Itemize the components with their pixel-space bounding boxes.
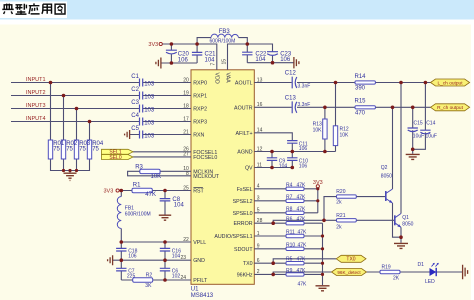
svg-text:2K: 2K — [393, 276, 400, 282]
svg-text:INPUT1: INPUT1 — [26, 77, 46, 83]
wire R5 row pin6 — [254, 262, 322, 264]
svg-text:PFILT: PFILT — [193, 278, 208, 284]
resistor R14 — [355, 81, 375, 84]
ground left of C20 rail — [156, 58, 161, 69]
capacitor C9 — [267, 158, 277, 161]
resistor R11 — [286, 234, 304, 237]
wire rail A 3V3 pullups — [317, 188, 319, 213]
svg-text:16: 16 — [257, 102, 263, 108]
wire 3V3 top rail left segment — [162, 44, 217, 70]
svg-text:24: 24 — [180, 275, 186, 281]
wire ground rail under R01-R04 — [51, 159, 90, 173]
capacitor C5 — [140, 131, 143, 139]
svg-text:RXP2: RXP2 — [193, 107, 207, 113]
svg-text:600R/100M: 600R/100M — [210, 39, 236, 45]
wire R8 row pin5 — [254, 212, 317, 214]
resistor R20 — [337, 195, 357, 198]
text 96K_detect tag — [337, 270, 361, 275]
svg-text:MS8413: MS8413 — [191, 293, 214, 299]
capacitor C20 polarized — [166, 50, 177, 54]
wire R10 row pin9 — [254, 248, 322, 250]
svg-text:2k: 2k — [336, 200, 342, 206]
title band — [0, 0, 474, 20]
svg-text:47K: 47K — [298, 230, 308, 236]
wire INPUT2 row — [11, 95, 191, 97]
wire rail B pulldowns to ground — [322, 223, 324, 285]
capacitor C10 — [287, 158, 297, 161]
wire C10 stubs — [291, 152, 293, 168]
capacitor C13 polarized — [292, 101, 297, 113]
labels C7 C6 R2 — [127, 268, 180, 289]
svg-text:75: 75 — [79, 147, 86, 153]
wire FB1 stubs — [120, 191, 122, 243]
svg-text:VPLL: VPLL — [193, 240, 206, 246]
svg-text:C21: C21 — [205, 51, 217, 57]
svg-text:20: 20 — [183, 77, 189, 83]
svg-text:VAA: VAA — [225, 73, 231, 84]
svg-text:R9: R9 — [286, 268, 293, 274]
pin numbers left — [180, 77, 189, 281]
pin names right column — [214, 81, 253, 279]
wire drop INPUT1 to R01 — [50, 83, 52, 141]
svg-text:MCLKOUT: MCLKOUT — [193, 174, 220, 180]
labels C12 C13 — [285, 71, 297, 102]
svg-text:27: 27 — [183, 152, 189, 158]
capacitor C15 polarized — [408, 128, 418, 132]
text 3V3 ladder — [313, 180, 323, 186]
wire C21 stubs — [196, 44, 198, 63]
net tag SEL1 — [102, 149, 134, 154]
svg-text:AOUTL: AOUTL — [235, 81, 253, 87]
svg-text:8050: 8050 — [381, 174, 392, 180]
resistor R3 — [140, 169, 160, 173]
svg-text:75: 75 — [92, 147, 99, 153]
svg-text:C12: C12 — [285, 71, 297, 77]
wire MCLKIN loop R3 — [128, 171, 191, 176]
title glyph 型 — [15, 4, 26, 14]
svg-text:106: 106 — [280, 57, 291, 63]
IC U1 MS8413 body — [191, 70, 254, 284]
labels C15 C14 — [414, 120, 436, 126]
capacitor C21 — [192, 52, 202, 55]
wire FB3 bridge — [197, 38, 247, 44]
net tag TX0 — [336, 255, 366, 262]
resistor R6 — [286, 222, 304, 225]
svg-text:102: 102 — [172, 273, 181, 279]
capacitor C3 — [140, 105, 143, 113]
pin numbers top 7 15 — [210, 59, 227, 66]
svg-text:FOCSEL0: FOCSEL0 — [193, 155, 217, 161]
capacitor C4 — [140, 118, 143, 126]
svg-text:104: 104 — [279, 163, 288, 169]
svg-text:R14: R14 — [355, 74, 367, 80]
title glyph 图 — [55, 4, 65, 14]
svg-text:ERROR: ERROR — [233, 221, 252, 227]
wire R11 row pin1 — [254, 235, 322, 237]
wire TX0 branch — [273, 259, 336, 263]
svg-text:3V3: 3V3 — [313, 180, 323, 186]
svg-text:15: 15 — [221, 59, 227, 65]
svg-text:103: 103 — [144, 107, 155, 113]
svg-text:C5: C5 — [131, 126, 139, 132]
svg-text:U1: U1 — [191, 286, 199, 292]
svg-text:SEL0: SEL0 — [109, 155, 121, 161]
svg-text:VDD: VDD — [213, 73, 219, 84]
svg-text:104: 104 — [174, 202, 185, 208]
capacitor C6 — [160, 268, 170, 271]
svg-text:GND: GND — [193, 258, 205, 264]
wire R20 to Q2 base — [356, 196, 386, 198]
wire C7 column — [120, 260, 122, 280]
svg-text:47K: 47K — [297, 257, 307, 263]
wire left cap ground rail — [161, 62, 197, 64]
wire right cap ground rail — [247, 62, 294, 64]
values 10uF 10uF — [413, 134, 437, 140]
svg-text:TX0: TX0 — [243, 261, 253, 267]
wire R9 row pin2 — [254, 273, 322, 275]
wire AGND row pin12 — [254, 151, 335, 153]
resistor R8 — [286, 211, 304, 214]
text L_ch R_ch output — [437, 80, 464, 111]
resistor R9 — [286, 273, 304, 276]
wire R4 row pin4 — [254, 188, 317, 190]
wire Q2 collector to R_ch — [392, 107, 394, 189]
wire SEL1 to pin26 — [133, 151, 191, 153]
svg-text:2: 2 — [257, 269, 260, 275]
wire INPUT3 row — [11, 108, 191, 110]
svg-text:R7: R7 — [286, 194, 293, 200]
capacitor C16 — [160, 248, 170, 251]
svg-text:104: 104 — [255, 57, 266, 63]
resistor R19 — [380, 270, 400, 273]
ground right of D1 — [463, 265, 468, 279]
wire AOUTR row R_ch — [254, 106, 430, 108]
svg-text:Q1: Q1 — [402, 215, 409, 221]
svg-text:R4: R4 — [286, 182, 293, 188]
svg-text:R19: R19 — [382, 264, 391, 270]
svg-text:L_ch output: L_ch output — [437, 80, 463, 86]
svg-text:47K: 47K — [297, 182, 307, 188]
ground below Q1 emitter — [394, 243, 408, 248]
svg-text:AFILT+: AFILT+ — [235, 131, 252, 137]
svg-text:3V3: 3V3 — [104, 188, 114, 194]
svg-text:103: 103 — [144, 133, 155, 139]
resistor R15 — [355, 106, 375, 109]
svg-text:R2: R2 — [146, 272, 153, 278]
svg-text:R5: R5 — [286, 257, 293, 263]
svg-text:22: 22 — [183, 237, 189, 243]
wire 96K tag to R19 to D1 to ground — [367, 271, 463, 273]
svg-text:75: 75 — [66, 147, 73, 153]
wire C18 column — [120, 242, 122, 260]
pin numbers right — [257, 77, 263, 275]
resistor R21 — [337, 219, 357, 222]
svg-text:106: 106 — [299, 146, 308, 152]
svg-text:104: 104 — [172, 253, 181, 259]
resistor R2 — [133, 278, 153, 282]
wire C20 stubs — [170, 44, 172, 63]
svg-text:47K: 47K — [297, 206, 307, 212]
labels C11 C9 C10 — [279, 141, 308, 169]
svg-text:47K: 47K — [297, 194, 307, 200]
labels C22 C23 — [255, 51, 291, 63]
svg-text:225: 225 — [127, 273, 136, 279]
labels R19 D1 LED — [382, 262, 436, 285]
svg-text:3: 3 — [257, 196, 260, 202]
capacitor C18 — [116, 248, 126, 251]
net tag SEL0 — [102, 155, 134, 160]
capacitor C11 — [287, 141, 297, 144]
resistor R04 — [87, 140, 91, 159]
svg-text:10K: 10K — [340, 133, 350, 139]
capacitor C23 polarized — [267, 52, 278, 56]
pin names top VDD VAA — [213, 73, 230, 84]
wire drop INPUT3 to R03 — [76, 109, 78, 141]
text 3V3 at R1 — [104, 188, 114, 194]
text TX0 tag — [346, 257, 355, 263]
svg-text:Q2: Q2 — [381, 165, 388, 171]
svg-text:8050: 8050 — [402, 222, 413, 228]
resistor R01 — [48, 140, 52, 159]
svg-text:QV: QV — [245, 166, 253, 172]
labels C18 C16 — [128, 248, 181, 259]
svg-text:SPSEL0: SPSEL0 — [233, 211, 253, 217]
svg-text:21: 21 — [183, 129, 189, 135]
diode D1 LED — [430, 263, 439, 276]
wire C6 column — [164, 260, 166, 280]
svg-text:RST: RST — [193, 189, 204, 195]
ground below C8 — [159, 215, 171, 220]
wire QV row pin11 — [254, 167, 292, 169]
svg-text:C1: C1 — [131, 74, 139, 80]
svg-text:47K: 47K — [297, 268, 307, 274]
svg-text:INPUT4: INPUT4 — [26, 116, 46, 122]
svg-text:AUDIO/SPSEL1: AUDIO/SPSEL1 — [214, 234, 252, 240]
inductor FB3 — [211, 34, 239, 37]
svg-text:17: 17 — [183, 116, 189, 122]
svg-text:103: 103 — [144, 94, 155, 100]
wire SEL0 to pin27 — [133, 156, 191, 158]
wire INPUT1 row — [11, 82, 191, 84]
wire C23 lower stub — [272, 56, 274, 63]
labels R20 R21 — [336, 189, 345, 231]
svg-text:RXN: RXN — [193, 133, 204, 139]
svg-text:FB3: FB3 — [219, 29, 231, 35]
resistor R7 — [286, 199, 304, 202]
title text 典型应用图 — [2, 3, 65, 14]
svg-text:C14: C14 — [426, 120, 435, 126]
capacitor C14 polarized — [420, 130, 430, 134]
svg-text:10uF: 10uF — [426, 134, 437, 140]
text SEL1 SEL0 — [109, 150, 121, 161]
ground left of C5 — [125, 130, 130, 139]
text U1 MS8413 — [191, 286, 214, 298]
wire C15 column — [412, 107, 414, 154]
svg-text:SDOUT: SDOUT — [234, 247, 253, 253]
text 3V3 top — [148, 42, 158, 48]
label FB1 600R/100M — [125, 206, 151, 218]
title glyph 用 — [42, 4, 52, 14]
wire C22 stubs — [246, 44, 248, 63]
svg-text:14: 14 — [257, 128, 263, 134]
power port 3V3 at R1 — [116, 189, 119, 192]
labels R13 R12 — [313, 122, 349, 139]
svg-text:R11: R11 — [286, 230, 295, 236]
svg-text:600R/100M: 600R/100M — [125, 212, 151, 218]
power port 3V3 ladder — [316, 185, 319, 188]
labels R14 R15 — [355, 74, 367, 117]
svg-text:D1: D1 — [418, 262, 425, 268]
title glyph 应 — [29, 3, 40, 14]
wire PFILT row pin24 with R2 — [121, 279, 191, 281]
wire 3V3 to R1 to RST pin25 — [119, 190, 191, 192]
capacitor C8 — [160, 199, 171, 201]
svg-text:47K: 47K — [297, 217, 307, 223]
resistor R5 — [286, 262, 304, 265]
label FB3 — [219, 29, 231, 35]
RST overline — [193, 187, 203, 189]
wire R13 stubs — [324, 107, 326, 151]
label C8 104 — [172, 197, 184, 209]
svg-text:FsSEL: FsSEL — [237, 187, 253, 193]
svg-text:R21: R21 — [336, 213, 345, 219]
svg-text:47K: 47K — [298, 281, 308, 287]
svg-text:103: 103 — [144, 120, 155, 126]
svg-text:R1: R1 — [133, 182, 141, 188]
wire C14 column — [413, 83, 426, 150]
svg-text:470: 470 — [355, 110, 366, 116]
svg-text:RXP0: RXP0 — [193, 81, 207, 87]
wire Q1 collector to L_ch — [400, 83, 402, 214]
svg-text:1: 1 — [257, 231, 260, 237]
wire R7 row pin3 — [254, 200, 317, 202]
svg-text:106: 106 — [178, 58, 189, 64]
transistor Q1 — [395, 214, 401, 228]
svg-text:R_ch output: R_ch output — [437, 105, 464, 111]
wire C16 column — [164, 242, 166, 260]
ground earth below R01-R04 — [64, 173, 77, 180]
svg-text:10K: 10K — [151, 174, 162, 180]
svg-text:C13: C13 — [285, 95, 297, 101]
wire R6 row pin28 — [254, 222, 322, 224]
svg-text:106: 106 — [128, 253, 137, 259]
svg-text:R6: R6 — [286, 217, 293, 223]
title glyph 典 — [2, 4, 13, 14]
svg-text:C4: C4 — [131, 113, 139, 119]
wire GND row pin23 — [113, 259, 191, 261]
resistor R02 — [61, 140, 65, 159]
svg-text:RXP1: RXP1 — [193, 94, 207, 100]
resistor R03 — [74, 140, 78, 159]
svg-text:3.3nF: 3.3nF — [298, 102, 311, 108]
pin names left column — [193, 81, 220, 285]
wire C9 stubs — [271, 152, 273, 168]
labels Q2 Q1 — [381, 165, 414, 228]
wire C8 drop — [164, 191, 166, 215]
svg-text:R10: R10 — [286, 242, 295, 248]
svg-text:75: 75 — [53, 147, 60, 153]
net labels INPUT1-4 — [26, 77, 46, 122]
transistor Q2 — [386, 189, 393, 203]
svg-text:AGND: AGND — [237, 150, 252, 156]
svg-text:9: 9 — [257, 244, 260, 250]
svg-text:RXP3: RXP3 — [193, 120, 207, 126]
svg-text:TX0: TX0 — [346, 257, 355, 263]
svg-text:3V3: 3V3 — [148, 42, 158, 48]
svg-text:R3: R3 — [135, 165, 143, 171]
svg-text:3K: 3K — [145, 283, 152, 289]
svg-text:47K: 47K — [298, 242, 308, 248]
svg-text:C15: C15 — [414, 120, 423, 126]
svg-text:C20: C20 — [178, 51, 190, 57]
wire drop INPUT2 to R02 — [63, 96, 65, 141]
power port 3V3 top — [159, 42, 162, 45]
svg-text:2k: 2k — [336, 225, 342, 231]
svg-text:7: 7 — [210, 63, 216, 66]
wire drop INPUT4 to R04 — [89, 122, 91, 141]
net tag L_ch output — [431, 79, 470, 86]
resistor R4 — [286, 187, 304, 190]
wire RXN row — [130, 134, 191, 136]
svg-text:LED: LED — [425, 279, 435, 285]
svg-text:47K: 47K — [145, 192, 156, 198]
values 3.3nF — [298, 84, 311, 109]
svg-text:96KHz: 96KHz — [237, 272, 253, 278]
svg-text:13: 13 — [257, 77, 263, 83]
capacitor C12 polarized — [292, 77, 297, 89]
svg-text:104: 104 — [205, 58, 216, 64]
wire C11 lower stub — [291, 143, 293, 151]
wire AOUTL row L_ch — [254, 82, 430, 84]
svg-text:11: 11 — [257, 162, 262, 168]
svg-text:10uF: 10uF — [413, 134, 424, 140]
svg-text:C3: C3 — [131, 100, 139, 106]
svg-text:19: 19 — [183, 90, 189, 96]
net tag 96K_detect — [332, 269, 367, 276]
labels R01-R04 values — [53, 141, 104, 153]
labels ladder resistors 47K — [286, 182, 307, 287]
svg-text:4: 4 — [257, 184, 260, 190]
resistor R1 — [132, 188, 152, 193]
label R3 10K — [135, 165, 161, 180]
wire Q2 emitter down — [393, 203, 402, 237]
wire R12 drop from L_ch — [335, 83, 337, 152]
svg-text:23: 23 — [180, 255, 186, 261]
labels C20 C21 — [178, 51, 216, 63]
inductor FB1 — [117, 197, 121, 229]
svg-text:8: 8 — [186, 171, 189, 177]
resistor R13 — [323, 119, 327, 139]
svg-text:5: 5 — [257, 208, 260, 214]
svg-text:R20: R20 — [336, 189, 345, 195]
svg-text:18: 18 — [183, 103, 189, 109]
svg-text:103: 103 — [144, 81, 155, 87]
wire VPLL row pin22 — [121, 241, 191, 243]
wire 96K_detect branch — [273, 272, 331, 274]
wire VAA segment — [228, 44, 273, 70]
net tag R_ch output — [431, 104, 470, 111]
svg-text:390: 390 — [355, 86, 366, 92]
ground right of C23 rail — [294, 57, 299, 68]
svg-text:12: 12 — [257, 146, 263, 152]
ground below C15 C14 — [406, 154, 420, 159]
ground below rail B — [316, 286, 330, 291]
capacitor C1 — [140, 79, 143, 87]
wire ERROR branch to R21 R20 — [273, 197, 336, 224]
capacitor C2 — [140, 92, 143, 100]
svg-text:INPUT3: INPUT3 — [26, 103, 46, 109]
svg-text:R15: R15 — [355, 99, 367, 105]
